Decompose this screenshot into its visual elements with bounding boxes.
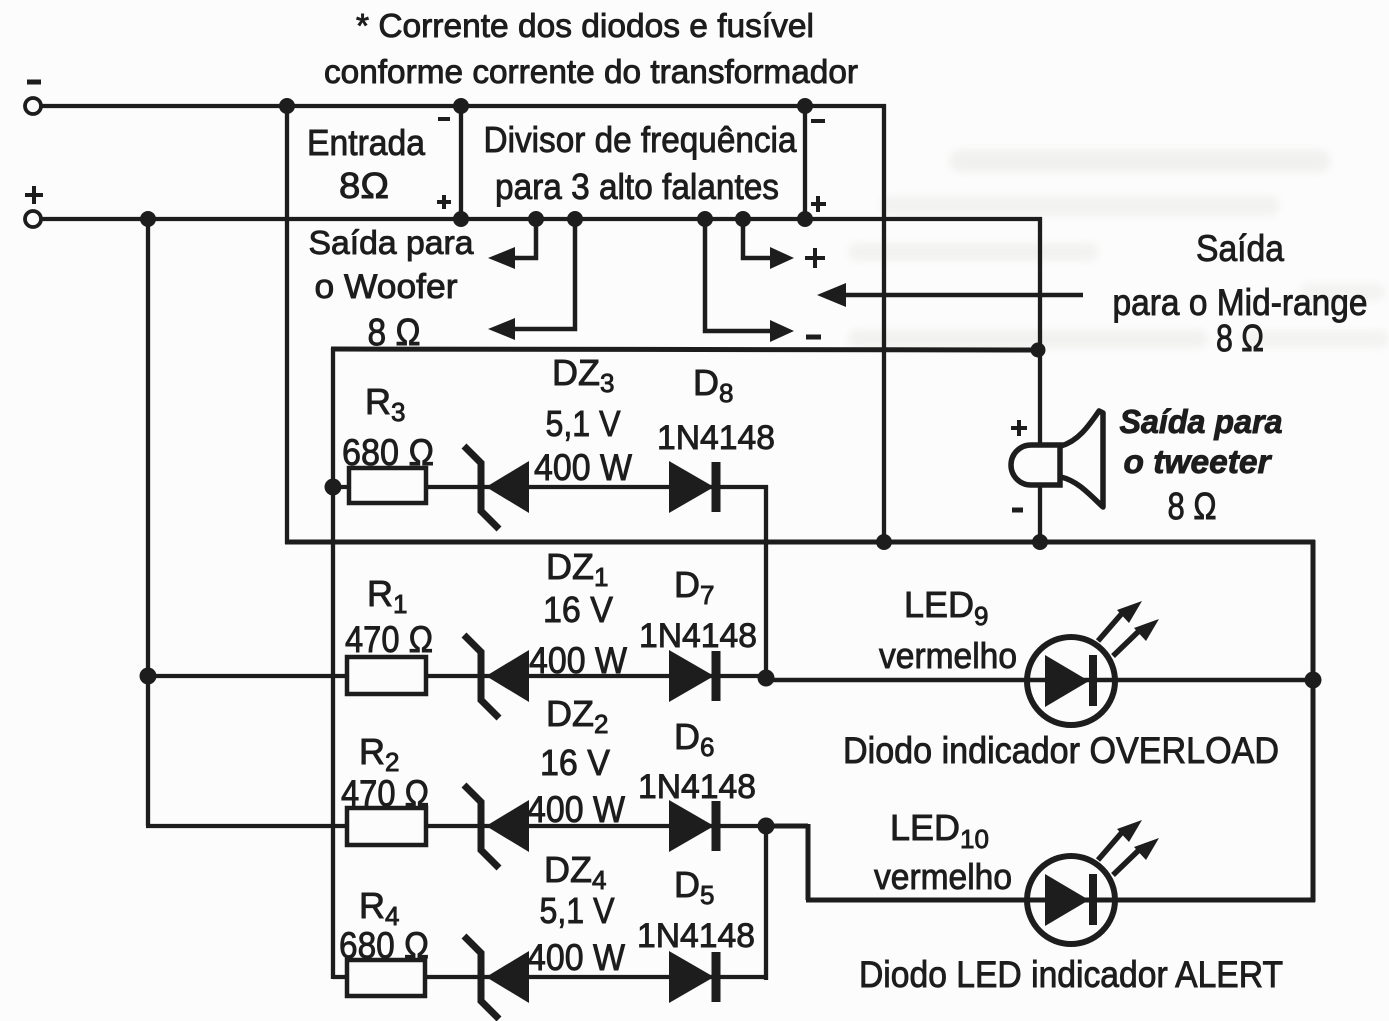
wire branch3 line R2 feed [146, 824, 768, 828]
junction node D7 output [758, 670, 775, 687]
svg-text:400 W: 400 W [527, 937, 625, 978]
svg-text:LED10: LED10 [890, 807, 989, 854]
wire branch3 jog vertical x808 [806, 824, 811, 900]
wire D8 output drop x766 [764, 485, 768, 680]
wire branch4 line [333, 975, 768, 979]
wire negative rail right drop x884 [882, 104, 886, 542]
label plus near Entrada right [437, 195, 451, 209]
zener diode DZ2 [464, 785, 529, 868]
svg-text:400 W: 400 W [534, 447, 632, 488]
Entrada box right edge / Divisor left edge x461 [459, 106, 463, 219]
svg-text:D6: D6 [674, 716, 714, 762]
wire positive left drop x148 [146, 217, 150, 826]
junction node branch1 left [325, 479, 342, 496]
svg-text:DZ4: DZ4 [544, 849, 606, 895]
resistor R4 [347, 960, 425, 996]
wire branch3 jog horizontal [766, 824, 808, 829]
label plus tweeter [1011, 420, 1027, 436]
wire positive rail [41, 217, 1042, 221]
wire LED9 line y680 [764, 678, 1315, 683]
svg-text:470 Ω: 470 Ω [345, 619, 433, 660]
junction node woofer plus tap [528, 211, 544, 227]
junction node branch2 left [140, 668, 157, 685]
junction node midrange minus tap [697, 211, 713, 227]
label minus near Entrada right [438, 117, 450, 121]
junction node LED9/right rail [1305, 672, 1322, 689]
junction node midrange plus tap [735, 211, 751, 227]
svg-text:8 Ω: 8 Ω [368, 312, 421, 354]
svg-text:DZ2: DZ2 [546, 693, 608, 739]
junction node minus/left drop [279, 98, 295, 114]
svg-text:DZ1: DZ1 [546, 546, 608, 592]
LED LED9 [1027, 601, 1159, 725]
svg-text:5,1 V: 5,1 V [540, 890, 615, 931]
arrow woofer plus (left) [512, 222, 536, 258]
junction node bus/x884 [876, 534, 892, 550]
label minus near Divisor right [811, 119, 825, 123]
wire left negative drop x288 [285, 104, 289, 544]
arrow midrange minus (right) [705, 222, 772, 331]
label minus woofer right arrow [806, 335, 821, 340]
svg-text:470 Ω: 470 Ω [341, 773, 429, 814]
zener diode DZ4 [464, 936, 529, 1019]
junction node top feed/tweeter drop [1031, 343, 1046, 358]
svg-text:16 V: 16 V [543, 589, 613, 630]
svg-text:400 W: 400 W [529, 640, 627, 681]
svg-text:o Woofer: o Woofer [315, 268, 458, 306]
svg-text:D7: D7 [674, 564, 714, 610]
junction node woofer minus tap [567, 211, 583, 227]
svg-text:o tweeter: o tweeter [1124, 443, 1273, 480]
svg-text:8 Ω: 8 Ω [1168, 486, 1217, 528]
svg-text:8 Ω: 8 Ω [1216, 318, 1264, 360]
junction node bus/tweeter minus [1032, 534, 1048, 550]
scan bleed-through smudges (decorative) [950, 150, 1330, 172]
svg-text:* Corrente dos diodos e fusíve: * Corrente dos diodos e fusível [356, 7, 814, 44]
junction node minus/divisor left [453, 98, 469, 114]
svg-text:680 Ω: 680 Ω [339, 925, 429, 966]
junction node plus/left drop [140, 211, 156, 227]
Divisor box right edge x805 [803, 106, 807, 219]
svg-text:Diodo LED indicador ALERT: Diodo LED indicador ALERT [859, 954, 1283, 995]
wire negative top rail [41, 104, 886, 108]
label minus tweeter [1012, 508, 1023, 513]
resistor R1 [347, 657, 426, 694]
resistor R3 [349, 468, 426, 503]
wire negative bottom bus y542 [285, 540, 1315, 545]
diode D7 [669, 650, 716, 702]
svg-text:Entrada: Entrada [307, 122, 426, 163]
wire branch2 line [146, 674, 768, 678]
svg-text:LED9: LED9 [904, 584, 989, 631]
wire tweeter feed drop x1040 [1038, 217, 1042, 542]
svg-text:Saída para: Saída para [309, 224, 475, 261]
junction node minus/divisor right [797, 98, 813, 114]
svg-text:680 Ω: 680 Ω [342, 432, 434, 473]
label plus near Divisor right [811, 196, 826, 212]
svg-text:Divisor de frequência: Divisor de frequência [484, 119, 798, 160]
svg-text:Diodo indicador OVERLOAD: Diodo indicador OVERLOAD [843, 730, 1279, 771]
svg-text:1N4148: 1N4148 [657, 419, 775, 457]
svg-text:16 V: 16 V [540, 742, 610, 783]
label plus woofer right arrow [805, 248, 825, 268]
svg-text:1N4148: 1N4148 [638, 768, 756, 806]
svg-text:para 3 alto falantes: para 3 alto falantes [495, 166, 779, 207]
diode D8 [669, 461, 716, 513]
svg-text:1N4148: 1N4148 [639, 617, 757, 655]
arrow woofer minus (left) [512, 222, 575, 329]
zener diode DZ3 [464, 446, 529, 529]
svg-text:R2: R2 [359, 731, 399, 777]
resistor R2 [347, 808, 426, 845]
svg-text:D8: D8 [693, 362, 733, 408]
svg-text:conforme corrente do transform: conforme corrente do transformador [324, 53, 858, 90]
junction node plus/divisor left [453, 211, 469, 227]
terminal plus input [25, 186, 43, 227]
svg-text:DZ3: DZ3 [552, 352, 614, 398]
diode D5 [669, 951, 716, 1003]
junction node D6 output [758, 818, 775, 835]
svg-text:1N4148: 1N4148 [637, 917, 755, 955]
svg-text:8Ω: 8Ω [339, 165, 389, 206]
svg-text:vermelho: vermelho [879, 635, 1017, 676]
svg-text:R3: R3 [365, 381, 405, 427]
svg-text:Saída para: Saída para [1120, 403, 1283, 440]
diode D6 [669, 800, 716, 852]
speaker tweeter [1011, 411, 1103, 507]
arrow midrange plus (right) [743, 222, 772, 258]
wire branch1 line [333, 485, 768, 489]
wire right return rail x1313 [1311, 540, 1316, 902]
wire D6-D5 link x766 [764, 825, 768, 980]
svg-text:R1: R1 [367, 573, 407, 619]
junction node plus/divisor right [797, 211, 813, 227]
zener diode DZ1 [464, 635, 529, 718]
svg-text:D5: D5 [674, 864, 714, 910]
svg-text:5,1 V: 5,1 V [546, 403, 621, 444]
svg-text:400 W: 400 W [527, 789, 625, 830]
wire branch rail x333 [331, 348, 335, 979]
wire branch top feed y349 [331, 349, 1040, 350]
terminal minus input [25, 82, 41, 114]
wire LED10 line y900 [806, 898, 1315, 903]
LED LED10 [1027, 820, 1159, 944]
arrow midrange output (long left) [843, 293, 1083, 298]
svg-text:para o Mid-range: para o Mid-range [1113, 282, 1368, 323]
svg-text:Saída: Saída [1196, 228, 1284, 269]
svg-text:vermelho: vermelho [874, 856, 1012, 897]
